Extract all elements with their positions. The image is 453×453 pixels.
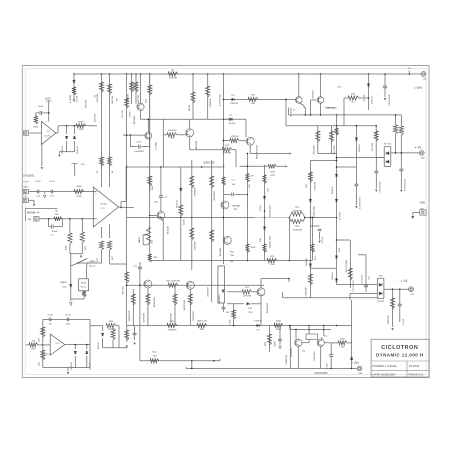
svg-text:1N4148 D24: 1N4148 D24	[269, 204, 271, 217]
svg-text:47R/1W: 47R/1W	[169, 78, 178, 80]
resistor x264.5 bot	[262, 244, 266, 253]
svg-text:680R: 680R	[275, 341, 277, 347]
svg-text:-15V: -15V	[81, 164, 86, 166]
wire V3 lower	[110, 263, 127, 265]
svg-text:TALMA B1: TALMA B1	[218, 293, 221, 303]
svg-text:CN2: CN2	[421, 157, 425, 159]
svg-text:120R/1W: 120R/1W	[168, 130, 178, 132]
svg-text:MJE15032: MJE15032	[325, 107, 336, 109]
resistor R44	[168, 283, 178, 287]
resistor R42 470R	[289, 218, 291, 222]
resistor R21 x109.5 below IC1	[107, 241, 111, 250]
svg-text:10K: 10K	[32, 340, 36, 342]
svg-text:100K: 100K	[33, 127, 39, 129]
ground y151.7	[58, 152, 60, 154]
wire output U2	[56, 132, 58, 134]
capacitor C40p	[279, 326, 281, 346]
connector CN2 +VL	[419, 151, 424, 156]
svg-text:RL2-2: RL2-2	[90, 266, 97, 268]
diode D6 on H14	[257, 324, 260, 327]
svg-text:• VH: • VH	[351, 361, 359, 365]
wire rail YA y114.9	[289, 114, 402, 116]
resistor R3 col x101.5	[99, 82, 103, 92]
diode D30	[102, 326, 104, 331]
resistor on V19 top	[334, 128, 338, 135]
svg-text:1N4148: 1N4148	[176, 199, 178, 207]
svg-text:0.47uF/250V: 0.47uF/250V	[405, 178, 407, 191]
wire Q3 emitter	[189, 137, 191, 150]
capacitor C29	[374, 171, 378, 172]
capacitor C31	[399, 169, 403, 170]
svg-text:100uF/63V: 100uF/63V	[134, 151, 144, 153]
svg-text:0.47uF/250V: 0.47uF/250V	[360, 196, 362, 209]
resistor R43 10K input	[26, 344, 29, 346]
svg-text:12K: 12K	[38, 338, 40, 342]
resistor R12	[190, 149, 222, 151]
diode D32 on x336.5	[335, 256, 338, 259]
op-amp IC1	[93, 187, 118, 227]
resistor x392.5	[390, 298, 394, 309]
wire driver emitter to arrow	[249, 145, 251, 153]
capacitor C17	[224, 193, 231, 195]
resistor box R0R22	[306, 334, 318, 340]
wire bottom into BYV32 lower	[283, 297, 378, 299]
resistor x180.8	[179, 205, 183, 216]
svg-text:0.1uF/630V: 0.1uF/630V	[362, 274, 364, 285]
wire x312.4	[311, 218, 313, 261]
svg-text:680R: 680R	[76, 186, 82, 188]
svg-text:0R22/5W: 0R22/5W	[313, 145, 315, 155]
svg-text:1K/1W: 1K/1W	[189, 104, 191, 111]
ground x392.5	[391, 328, 393, 330]
svg-text:1N5402: 1N5402	[371, 95, 373, 103]
svg-text:4u7/1W: 4u7/1W	[156, 141, 158, 149]
wire V4 x126.6	[126, 74, 128, 167]
wire x211.7 lower	[211, 270, 213, 302]
capacitor C33	[329, 355, 333, 356]
wire x134.6 stub	[134, 326, 136, 341]
svg-text:470R/1W: 470R/1W	[293, 230, 303, 232]
svg-text:R16B: R16B	[78, 121, 84, 123]
wire R pair to V19	[305, 217, 337, 219]
wire IC1 power bottom	[101, 227, 103, 238]
resistor x264.5 top	[262, 175, 266, 184]
wire Q2 emitter	[320, 103, 322, 115]
svg-text:IC IN: IC IN	[24, 181, 29, 183]
svg-text:4V7/1W: 4V7/1W	[339, 211, 341, 220]
svg-text:74b: 74b	[230, 261, 233, 263]
power stub -15V	[72, 163, 78, 165]
capacitor C14 100uF loop	[48, 218, 50, 220]
svg-text:56R/R1W: 56R/R1W	[144, 312, 146, 322]
wire lower y151.7	[59, 151, 74, 153]
resistor R62 1K8	[140, 360, 220, 362]
svg-text:100uF: 100uF	[51, 231, 58, 233]
svg-text:PL1034: PL1034	[409, 364, 420, 368]
wire y160.4 to V19	[310, 159, 336, 161]
relay switch RL2-2	[77, 262, 79, 264]
svg-text:4.7uF: 4.7uF	[65, 315, 71, 317]
resistor R27	[242, 290, 252, 294]
transistor Q5 driver	[245, 119, 247, 137]
wire bias y99.4	[224, 98, 296, 100]
svg-text:4K7/1W: 4K7/1W	[97, 93, 99, 102]
resistor R72 x401.3	[400, 115, 402, 126]
svg-text:170R/1W: 170R/1W	[194, 187, 196, 197]
resistor R18 x101.5 above IC1	[99, 157, 103, 166]
resistor R20 x101.5 below IC1	[99, 241, 103, 250]
capacitor C36 x366	[364, 285, 368, 286]
wire H5 y167 500R LINE	[127, 166, 224, 168]
wire V11 x223.5	[223, 74, 225, 264]
resistor col x133.3	[132, 289, 134, 326]
svg-text:R110: R110	[276, 321, 282, 323]
wire V9 x193	[192, 74, 194, 119]
power stub +15V	[48, 101, 50, 122]
title block	[371, 339, 429, 377]
svg-text:0R22/5W: 0R22/5W	[334, 145, 336, 155]
resistor on x310.4 top	[308, 172, 312, 182]
svg-text:MJ15024: MJ15024	[291, 347, 293, 357]
diode D12 x356.4	[355, 138, 358, 141]
resistor R63	[338, 341, 347, 345]
svg-text:R10B: R10B	[76, 196, 82, 198]
resistor col x147.9	[147, 288, 149, 326]
svg-text:47R/1W: 47R/1W	[243, 295, 252, 297]
wire stub x356.4	[355, 126, 357, 205]
svg-text:R40 10K: R40 10K	[95, 113, 97, 122]
transistor Q12 output bottom	[295, 339, 302, 346]
zener D10 on V19	[335, 199, 338, 202]
ground stub U2	[41, 145, 43, 167]
capacitor C15	[159, 196, 163, 197]
wire rail x310.4	[309, 160, 311, 295]
wire H 278.6	[261, 278, 289, 280]
resistor on x223.5 rail	[221, 177, 225, 186]
svg-text:0.1uF/250V: 0.1uF/250V	[380, 181, 382, 193]
transistor Q7	[223, 236, 231, 244]
resistor x150.5 low	[148, 254, 152, 262]
arrow R106	[285, 165, 287, 167]
wire x399.8 down	[399, 289, 401, 322]
resistor R11 base	[167, 133, 177, 137]
resistor x269.5	[269, 326, 271, 353]
relay coil RL2-1	[79, 279, 89, 291]
svg-text:IC10b1: IC10b1	[100, 203, 108, 205]
wire IC1 feedback up	[120, 207, 122, 209]
wire input H6 y191.6	[28, 191, 96, 193]
wire R col to BYV32	[375, 126, 377, 158]
junction top bus	[73, 73, 74, 74]
resistor x350.3	[348, 268, 352, 280]
svg-text:470uF: 470uF	[326, 362, 328, 368]
resistor R10B 680R	[74, 190, 84, 194]
svg-text:470R/1W: 470R/1W	[210, 98, 212, 108]
svg-text:10R: 10R	[154, 201, 158, 203]
resistor R26 x191.8	[190, 228, 194, 240]
wire base rail bottom outputs	[289, 326, 291, 330]
wire x126.8 below H14	[126, 326, 128, 343]
transistor Q20 x140.5	[140, 74, 142, 103]
svg-text:GND: GND	[420, 202, 426, 205]
svg-text:MJ15024: MJ15024	[314, 351, 316, 361]
transistor Q3	[186, 129, 194, 137]
wire y157.6 long	[337, 157, 385, 159]
diode DZ1	[74, 345, 76, 349]
wire x247.4	[246, 154, 248, 261]
svg-text:47R/1W: 47R/1W	[223, 153, 232, 155]
connector C10A	[34, 217, 39, 221]
svg-text:1N5404: 1N5404	[332, 271, 334, 279]
svg-text:1N4148: 1N4148	[71, 361, 73, 369]
wire x290.3 drop	[289, 326, 291, 369]
svg-text:100R/2W: 100R/2W	[388, 315, 390, 325]
resistor R14 col x207.7	[206, 86, 210, 97]
resistor R9 col x149.7	[148, 85, 152, 95]
svg-text:1K0B: 1K0B	[251, 247, 256, 249]
svg-text:• VH: • VH	[414, 85, 422, 90]
svg-text:MJE15032: MJE15032	[154, 296, 156, 307]
svg-text:1N5404: 1N5404	[306, 258, 308, 266]
diode D2 top right	[368, 74, 370, 110]
capacitor stub C28b	[310, 225, 319, 227]
wire Q1 emitter step	[300, 103, 304, 105]
resistor R4 col x109.5	[107, 84, 111, 94]
wire V10 x207.7	[207, 74, 209, 119]
wire H y268.3	[310, 267, 336, 269]
wire x180.8	[180, 167, 182, 261]
wire Q4 collector x160.9	[160, 167, 162, 212]
resistor R23 x191.8	[190, 176, 194, 188]
wire x336.5 to BYV32	[336, 284, 338, 286]
wire -VH bus H15	[186, 367, 357, 369]
svg-text:470R/2W: 470R/2W	[306, 287, 308, 297]
resistor fb 22K lower	[42, 345, 44, 362]
resistor col x190.3	[189, 289, 191, 325]
rectifier BYV32 bottom	[377, 278, 384, 299]
svg-text:R17 1K: R17 1K	[122, 110, 124, 118]
svg-text:C11: C11	[23, 196, 26, 198]
svg-text:0.68R/5W: 0.68R/5W	[286, 354, 288, 364]
svg-text:22K: 22K	[38, 362, 40, 366]
svg-text:100R: 100R	[78, 129, 84, 131]
wire Q4 emitter x163.2	[162, 219, 164, 261]
svg-text:56R/1.2W: 56R/1.2W	[197, 321, 207, 323]
svg-text:0.47uF/250V: 0.47uF/250V	[353, 280, 355, 292]
relay box RL1	[218, 266, 225, 303]
wire y325.7 to right	[90, 325, 103, 327]
connector CN3 -VL	[409, 287, 414, 292]
op-amp U2 TL071	[42, 122, 56, 145]
svg-text:RL2A: RL2A	[81, 281, 87, 284]
wire stub VL down x401.3	[400, 153, 402, 189]
wire V8 x163.3	[162, 119, 164, 167]
resistor x312.4	[310, 244, 314, 253]
svg-text:1N4148: 1N4148	[77, 145, 79, 153]
resistor R9A fb	[82, 218, 84, 220]
wire V19 x336.5	[336, 115, 338, 285]
transistor Q21 x148.3	[145, 132, 152, 139]
diode D16	[227, 303, 244, 305]
svg-text:1K2/R1W: 1K2/R1W	[214, 190, 216, 200]
wire x191.8 to -VH bus	[191, 361, 193, 369]
resistor R19 x109.5 above IC1	[107, 157, 111, 166]
wire V5 x131.6	[131, 74, 133, 104]
resistor R8 col x136	[135, 74, 137, 104]
svg-text:T1g: T1g	[302, 351, 305, 353]
svg-text:TIP50: TIP50	[129, 110, 131, 117]
wire x351.6	[351, 300, 353, 368]
coil zigzag	[82, 291, 86, 297]
capacitor C22 x139.9	[139, 262, 141, 361]
resistor R1 on top bus	[168, 72, 178, 76]
diode D4	[232, 98, 235, 101]
svg-text:B22K: B22K	[183, 219, 185, 225]
diode D9 on V19	[335, 174, 338, 177]
svg-text:4.7uF: 4.7uF	[35, 181, 41, 183]
diode D6a	[66, 126, 68, 134]
svg-text:4K7/1W: 4K7/1W	[138, 94, 140, 103]
wire input U2	[29, 132, 41, 134]
ground col x74	[73, 100, 75, 102]
stem x350.3 cap	[337, 239, 351, 241]
svg-text:CN1: CN1	[423, 79, 427, 81]
svg-text:CICLOTRON: CICLOTRON	[381, 345, 418, 351]
svg-text:270R: 270R	[269, 264, 275, 266]
diode D5	[230, 118, 233, 121]
svg-text:0.47uF: 0.47uF	[403, 318, 405, 325]
wire -VL out	[384, 288, 409, 290]
ground relay	[70, 297, 72, 299]
svg-text:0.47uF: 0.47uF	[322, 236, 324, 243]
wire x392.5 down	[392, 289, 394, 327]
svg-text:470R/1W: 470R/1W	[293, 210, 303, 212]
wire H9 y217.2 mid bus	[127, 216, 290, 218]
svg-text:BY114: BY114	[229, 123, 236, 125]
wire into BYV32 bottom a	[337, 284, 378, 286]
svg-text:1N5402 D5b: 1N5402 D5b	[313, 205, 315, 218]
svg-text:271R: 271R	[270, 175, 275, 177]
svg-text:TL071: TL071	[44, 135, 51, 137]
ground x376.3	[375, 190, 377, 192]
resistor R622	[233, 304, 235, 326]
transistor Q8	[144, 280, 152, 288]
svg-text:100K: 100K	[66, 245, 68, 251]
wire +VL feed H2 y125.8	[286, 125, 376, 127]
wire H11 y260.5	[150, 260, 313, 262]
resistor fb 12K upper	[42, 319, 44, 345]
wire y347.7	[103, 347, 127, 349]
stem x366	[358, 254, 366, 256]
wire into BYV32	[376, 157, 384, 159]
resistor R70 x376.2	[374, 131, 378, 141]
svg-text:CN12: CN12	[23, 186, 29, 188]
diode D18	[350, 357, 353, 360]
diode D33 x336.5 low	[335, 279, 338, 282]
resistor B1K x149.7	[148, 176, 152, 186]
diode chain x264.5 a	[263, 196, 266, 199]
svg-text:MPSA92: MPSA92	[195, 140, 198, 149]
svg-text:24R: 24R	[251, 103, 255, 105]
svg-text:1W: 1W	[117, 98, 119, 101]
wire bias y119.2	[224, 118, 247, 120]
svg-text:470R/1W: 470R/1W	[168, 329, 178, 331]
svg-text:B1K 47K/2W2: B1K 47K/2W2	[346, 259, 348, 272]
diode chain x264.5 b	[263, 227, 266, 230]
resistor x211.7	[210, 176, 214, 188]
section box BORNE	[25, 208, 57, 210]
wire Q21 base y135.1	[123, 134, 145, 136]
ground x401.3	[400, 190, 402, 192]
transistor Q13 output bottom	[317, 339, 324, 346]
ground GND terminal	[411, 216, 414, 219]
svg-text:BYV32: BYV32	[384, 144, 391, 146]
wire V2 lower to relay	[78, 262, 102, 264]
svg-text:R24b: R24b	[260, 205, 262, 211]
svg-text:470uF/200V: 470uF/200V	[314, 372, 328, 375]
resistor emitter Rb x331.5	[331, 126, 333, 154]
resistor emitter Ra x317.8	[317, 126, 319, 154]
svg-text:1N5402: 1N5402	[359, 143, 361, 151]
svg-text:1N4148: 1N4148	[62, 145, 64, 153]
svg-text:1K2/R1W: 1K2/R1W	[207, 286, 209, 296]
resistor R110 on H14	[274, 323, 283, 327]
capacitor C13	[50, 190, 53, 194]
wire into BYV32 bottom b	[350, 292, 377, 294]
diode D31 on x310.4	[309, 264, 312, 267]
wire fb to relay	[70, 254, 72, 266]
ground x356.4	[355, 206, 357, 208]
svg-text:4.7uF: 4.7uF	[47, 315, 53, 317]
svg-text:BD/MJE15032: BD/MJE15032	[257, 144, 259, 159]
svg-text:P12K: P12K	[229, 319, 231, 325]
resistor col x74	[72, 87, 76, 95]
wire coil to switch	[86, 266, 88, 279]
svg-text:BORNE> HI: BORNE> HI	[27, 212, 40, 215]
diode DZ2	[86, 345, 88, 349]
svg-text:4.7uF: 4.7uF	[49, 181, 55, 183]
op-amp U3 TL072	[50, 334, 65, 355]
resistor R71 x395.5	[395, 115, 397, 125]
transistor Q4 vas	[157, 212, 165, 220]
wire V4b x126.6 long	[126, 167, 128, 326]
svg-text:TR13: TR13	[230, 251, 235, 253]
capacitor C30 470uF/200V	[384, 74, 386, 97]
wire x211.7	[211, 160, 213, 270]
resistor x113	[112, 326, 114, 330]
wire bus y125.8	[58, 125, 97, 127]
svg-text:+15V: +15V	[45, 97, 51, 100]
svg-text:22K: 22K	[55, 214, 59, 216]
svg-text:POWER 1 CANAL: POWER 1 CANAL	[373, 364, 398, 368]
wire top +VH bus	[74, 73, 421, 75]
wire x331.2 stub	[330, 344, 332, 369]
wire H14 y325.5	[127, 325, 352, 327]
resistor R10A fb	[69, 219, 71, 233]
svg-text:2716: 2716	[248, 312, 254, 314]
wire top line y319.4	[43, 318, 90, 320]
svg-text:R15 10K: R15 10K	[86, 99, 88, 108]
svg-text:MPSA06: MPSA06	[233, 205, 242, 208]
svg-text:10K/1W: 10K/1W	[112, 95, 114, 104]
svg-text:BYV32: BYV32	[377, 301, 384, 303]
resistor R7 col x131.6	[130, 82, 134, 92]
pot trimmer MA2K	[146, 227, 150, 244]
connector CN11	[23, 198, 28, 202]
svg-text:FOLHA 1/2: FOLHA 1/2	[408, 373, 423, 377]
svg-text:• VL: • VL	[401, 278, 409, 283]
ground stub x44.7	[44, 192, 46, 194]
